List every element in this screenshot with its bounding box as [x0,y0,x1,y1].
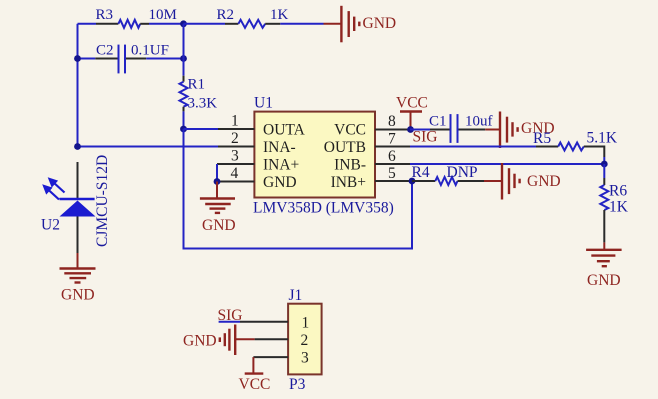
wire pin3 corner down to pin4 [216,164,218,182]
pin 7 [324,131,410,157]
svg-text:P3: P3 [289,376,306,393]
op-amp U1 [253,95,394,217]
svg-text:3: 3 [301,350,309,367]
svg-text:C1: C1 [429,114,447,130]
svg-text:GND: GND [183,333,217,350]
pin 1 [218,113,306,139]
junction C2 left node [74,55,81,62]
resistor R3 [96,7,177,28]
pin 4 [217,165,297,191]
svg-text:R1: R1 [188,77,206,93]
resistor R2 [184,7,289,28]
wire R2 to ground [280,23,323,25]
svg-text:LMV358D (LMV358): LMV358D (LMV358) [253,200,394,217]
wire pin1 to node [184,128,219,130]
net label SIG at J1 [218,307,243,324]
power VCC at pin 8 [396,95,428,130]
ground GND at J1 pin 2 (mirrored power port) [183,325,255,356]
pin 5 [331,165,412,191]
svg-text:R6: R6 [609,183,627,200]
pin 2 [218,130,296,156]
ground GND below R6 [586,242,622,289]
svg-text:VCC: VCC [396,95,428,112]
svg-text:6: 6 [388,148,396,165]
wire pin6 to node [410,163,604,165]
svg-text:GND: GND [61,287,95,304]
svg-text:R3: R3 [96,7,114,23]
svg-text:VCC: VCC [239,376,271,393]
svg-text:8: 8 [388,113,396,130]
svg-text:10uf: 10uf [465,114,493,130]
wire pin7 to R5 [410,146,536,148]
connector J1 [288,287,322,393]
junction pin2/LED node [74,143,81,150]
pin 6 [334,148,410,174]
svg-text:SIG: SIG [413,129,438,146]
resistor R6 (vertical) [600,164,628,242]
svg-text:7: 7 [388,131,396,148]
pin 8 [334,113,410,139]
wire SIG stub to J1 pin 1 [219,321,240,323]
wire top net from R3 left corner down to LED column [78,24,97,147]
svg-text:3.3K: 3.3K [188,96,218,112]
svg-text:0.1UF: 0.1UF [131,43,169,59]
junction top node [180,20,187,27]
svg-text:2: 2 [231,130,239,147]
LED arrows [42,177,64,199]
resistor R4 [412,164,485,185]
svg-text:R4: R4 [412,164,430,181]
svg-text:INB-: INB- [334,157,366,174]
wire feedback loop pin1-node to pin5 [184,129,413,249]
capacitor C1 [410,114,493,143]
power VCC at J1 pin 3 [239,357,271,393]
pin 3 [217,148,299,174]
svg-text:OUTA: OUTA [263,122,306,139]
svg-text:OUTB: OUTB [324,139,366,156]
ground GND below LED [60,253,96,304]
pin 3 of J1 [253,350,309,367]
svg-text:GND: GND [527,173,561,190]
wire R5 corner down to pin6 net [598,147,604,165]
junction pin 8 node [407,126,414,133]
svg-text:GND: GND [363,15,397,32]
LED U2 (photodiode CJMCU-S12D) [41,155,111,253]
capacitor C2 [78,43,184,74]
svg-text:4: 4 [231,165,239,182]
svg-text:2: 2 [301,332,309,349]
ground GND at R4 (horizontal power port) [484,163,561,200]
svg-text:1: 1 [302,315,310,332]
svg-text:1K: 1K [609,199,629,216]
svg-text:VCC: VCC [334,122,366,139]
wire from R3 to junction [149,23,184,25]
svg-text:GND: GND [587,272,621,289]
svg-text:3: 3 [231,148,239,165]
svg-text:GND: GND [202,217,236,234]
svg-text:INA-: INA- [263,139,296,156]
svg-text:10M: 10M [149,7,177,23]
svg-text:J1: J1 [289,287,303,304]
svg-text:INB+: INB+ [331,174,366,191]
svg-text:U1: U1 [254,95,273,112]
svg-text:5: 5 [388,165,396,182]
svg-text:SIG: SIG [218,307,243,324]
wire pin2 net from LED column [78,146,219,148]
svg-text:1: 1 [231,113,239,130]
resistor R5 [533,130,618,151]
junction pin 5 node [409,178,416,185]
svg-text:5.1K: 5.1K [587,130,618,147]
svg-text:R5: R5 [533,130,551,147]
resistor R1 (vertical) [180,24,218,129]
ground GND at U1 pins 3/4 [200,182,236,235]
svg-text:CJMCU-S12D: CJMCU-S12D [94,155,111,247]
svg-text:U2: U2 [41,217,60,234]
net label SIG at pin 7 [413,129,438,146]
ground GND at C1 (horizontal power port) [485,112,554,149]
pin 1 of J1 [240,315,309,332]
junction pin3/pin4 node [214,178,221,185]
svg-text:1K: 1K [270,7,289,23]
svg-text:R2: R2 [217,7,235,23]
pin 2 of J1 [255,332,309,349]
junction R1 bottom / pin1 node [180,126,187,133]
ground GND at R2 (horizontal power port) [324,6,397,43]
svg-text:DNP: DNP [447,164,478,181]
svg-text:GND: GND [263,174,297,191]
junction C2 right node [180,55,187,62]
svg-text:C2: C2 [96,43,114,59]
svg-text:INA+: INA+ [263,157,299,174]
junction R5/R6/pin6 node [601,161,608,168]
